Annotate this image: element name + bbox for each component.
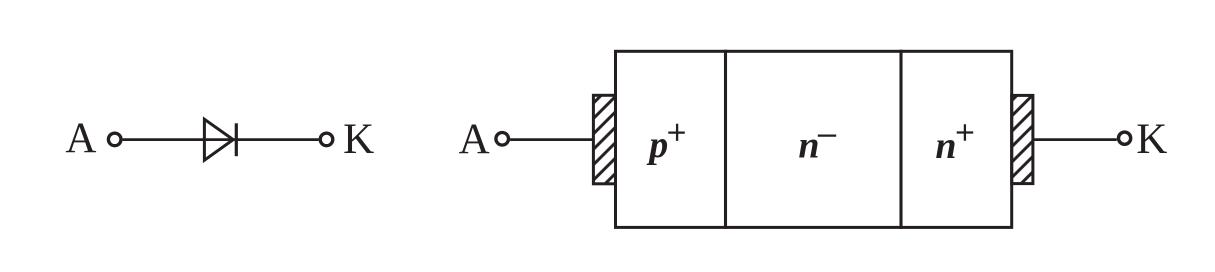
svg-text:p: p: [646, 124, 668, 166]
svg-text:n: n: [935, 125, 956, 167]
svg-text:A: A: [65, 115, 96, 162]
svg-text:A: A: [459, 116, 490, 163]
svg-text:n: n: [798, 125, 819, 167]
svg-text:K: K: [343, 116, 374, 163]
svg-text:K: K: [1136, 116, 1167, 163]
